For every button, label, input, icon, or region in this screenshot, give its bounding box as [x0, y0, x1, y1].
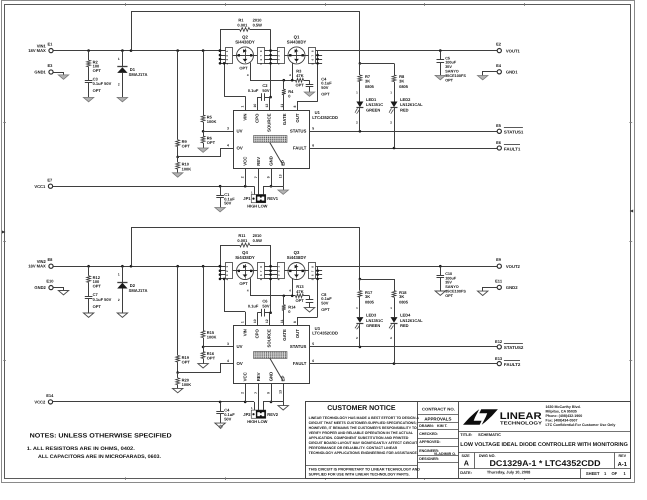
- svg-text:E11: E11: [495, 278, 503, 283]
- svg-text:Milpitas, CA 95035: Milpitas, CA 95035: [546, 410, 577, 414]
- ground at E3: [54, 73, 64, 75]
- svg-text:OPT: OPT: [93, 284, 102, 289]
- svg-text:REV1: REV1: [267, 196, 278, 201]
- wire middle source node bus: [270, 245, 272, 313]
- wire VIN bus left of Q4: [220, 245, 222, 279]
- svg-text:35V: 35V: [445, 65, 452, 69]
- svg-text:PERFORMANCE OR RELIABILITY. C: PERFORMANCE OR RELIABILITY. CONTACT LINE…: [309, 446, 398, 450]
- ground under C8: [304, 308, 314, 312]
- size and dwg no row: [458, 452, 630, 454]
- svg-text:47K: 47K: [296, 289, 303, 294]
- svg-text:6: 6: [312, 144, 314, 148]
- svg-text:OV: OV: [237, 361, 243, 366]
- wire LED1 cathode: [359, 108, 361, 132]
- svg-text:OPT: OPT: [296, 83, 305, 88]
- svg-text:OF: OF: [612, 471, 618, 476]
- terminal E3 GND1: [49, 70, 53, 74]
- svg-text:10: 10: [253, 104, 257, 108]
- svg-text:VIN: VIN: [243, 114, 248, 121]
- wire REV pin stub: [258, 168, 260, 194]
- wire JP pin1: [254, 402, 256, 410]
- svg-text:VIN: VIN: [243, 329, 248, 336]
- svg-text:DC1329A-1 * LTC4352CDD: DC1329A-1 * LTC4352CDD: [490, 458, 601, 468]
- svg-text:APPROVED:: APPROVED:: [419, 440, 440, 444]
- svg-text:GATE: GATE: [282, 113, 287, 125]
- svg-text:OPT: OPT: [182, 359, 191, 364]
- svg-text:LOW: LOW: [258, 204, 268, 209]
- svg-text:GREEN: GREEN: [366, 323, 380, 328]
- svg-text:DATE:: DATE:: [460, 470, 472, 475]
- wire VIN1 rail: [53, 50, 220, 52]
- resistor R11 0.001 0.5W sense: [220, 245, 240, 247]
- transistor Q4 Si4438DY: [237, 263, 254, 280]
- svg-text:Si4438DY: Si4438DY: [235, 255, 255, 260]
- svg-text:11: 11: [280, 104, 284, 108]
- terminal E6 FAULT1: [497, 146, 501, 150]
- svg-text:UV: UV: [237, 128, 243, 133]
- svg-text:50V: 50V: [262, 303, 269, 308]
- resistor R1 0.001 0.5W sense: [220, 29, 240, 31]
- resistor R6 OPT: [203, 131, 205, 136]
- ground under C4: [304, 92, 314, 96]
- svg-text:VCC: VCC: [243, 157, 248, 166]
- svg-text:GND: GND: [269, 156, 274, 166]
- svg-text:E7: E7: [47, 177, 53, 182]
- svg-text:LINEAR TECHNOLOGY HAS MADE A B: LINEAR TECHNOLOGY HAS MADE A BEST EFFORT…: [309, 416, 420, 420]
- svg-text:OPT: OPT: [93, 68, 102, 73]
- svg-text:STATUS1: STATUS1: [504, 129, 524, 134]
- svg-text:Si4438DY: Si4438DY: [287, 39, 307, 44]
- resistor R15 100K: [203, 266, 205, 330]
- svg-text:E4: E4: [496, 63, 502, 68]
- wire output bus right of Q1: [317, 51, 319, 102]
- wire EP pin stub: [283, 168, 285, 186]
- svg-text:3K: 3K: [399, 294, 404, 299]
- svg-text:HIGH: HIGH: [247, 204, 257, 209]
- svg-text:10: 10: [253, 319, 257, 323]
- diode D1 SMAJ17A: [122, 51, 124, 67]
- resistor R20 100K: [177, 373, 179, 378]
- terminal E1 VIN1: [49, 49, 53, 53]
- svg-text:35V: 35V: [445, 281, 452, 285]
- ground under R20: [173, 388, 183, 392]
- terminal E8 VIN2: [49, 264, 53, 268]
- svg-text:LTC Confidential-For Customer: LTC Confidential-For Customer Use Only: [546, 423, 616, 427]
- svg-text:4: 4: [227, 359, 229, 363]
- svg-text:CIRCUIT THAT MEETS CUSTOMER-SU: CIRCUIT THAT MEETS CUSTOMER-SUPPLIED SPE…: [309, 421, 417, 425]
- wire VOUT rail: [318, 50, 498, 52]
- revision diamond mark: [219, 425, 223, 429]
- resistor R14 0: [283, 296, 285, 305]
- svg-text:DESIGNER:: DESIGNER:: [419, 457, 439, 461]
- wire output bus right of Q3: [317, 266, 319, 317]
- svg-text:UV: UV: [237, 344, 243, 349]
- terminal E13 FAULT2: [497, 362, 501, 366]
- resistor R17 3K 0805: [359, 279, 361, 291]
- svg-text:FAULT1: FAULT1: [504, 146, 521, 151]
- terminal E9 VOUT2: [497, 264, 501, 268]
- svg-text:18V MAX: 18V MAX: [28, 264, 46, 269]
- svg-text:50V: 50V: [321, 85, 328, 90]
- svg-text:VCC1: VCC1: [34, 184, 46, 189]
- svg-text:GND2: GND2: [506, 285, 518, 290]
- svg-text:3K: 3K: [365, 294, 370, 299]
- resistor R7 3K 0805: [359, 63, 361, 75]
- transistor Q2 Si4438DY: [237, 47, 254, 64]
- wire STATUS line: [309, 346, 497, 348]
- svg-text:A-1: A-1: [618, 462, 628, 468]
- svg-text:0.001: 0.001: [237, 238, 248, 243]
- svg-text:SMAJ17A: SMAJ17A: [129, 288, 148, 293]
- wire STATUS line: [309, 131, 497, 133]
- svg-text:CIRCUIT BOARD LAYOUT MAY SIGNI: CIRCUIT BOARD LAYOUT MAY SIGNIFICANTLY A…: [309, 441, 418, 445]
- svg-text:OPT: OPT: [445, 294, 453, 298]
- svg-text:12: 12: [265, 104, 269, 108]
- capacitor C7 0.1uF 50V OPT: [88, 282, 90, 296]
- wire OUT to pin 8: [298, 102, 318, 111]
- wire LED supply rail: [131, 227, 133, 266]
- svg-text:CHECKED:: CHECKED:: [419, 432, 438, 436]
- svg-text:Si4438DY: Si4438DY: [287, 255, 307, 260]
- svg-text:C10: C10: [445, 272, 452, 276]
- svg-text:5: 5: [312, 127, 314, 131]
- wire VIN2 rail: [53, 266, 220, 268]
- svg-text:8: 8: [293, 106, 297, 108]
- svg-text:TECHNOLOGY: TECHNOLOGY: [500, 421, 542, 426]
- wire EP pin stub: [283, 384, 285, 402]
- wire LED supply rail: [131, 12, 133, 51]
- svg-text:0805: 0805: [365, 84, 375, 89]
- wire VOUT rail: [318, 266, 498, 268]
- svg-text:0.1uF 50V: 0.1uF 50V: [93, 81, 112, 86]
- node OV divider: [176, 371, 179, 374]
- node UV divider: [202, 346, 205, 349]
- svg-text:Thursday, July 10, 2008: Thursday, July 10, 2008: [487, 469, 531, 474]
- svg-text:1: 1: [241, 106, 245, 108]
- svg-text:OPT: OPT: [207, 356, 216, 361]
- wire LED4 cathode: [394, 323, 396, 363]
- capacitor C4 0.1uF 50V OPT: [309, 80, 311, 84]
- svg-text:KIM T.: KIM T.: [437, 424, 448, 428]
- svg-text:LED2: LED2: [400, 97, 411, 102]
- wire VCC pin stub: [245, 384, 247, 402]
- resistor R5 100K: [203, 51, 205, 115]
- wire FAULT line: [309, 363, 497, 365]
- svg-text:OPT: OPT: [93, 304, 102, 309]
- wire source pin stub: [269, 314, 271, 326]
- resistor R16 OPT: [203, 347, 205, 352]
- svg-text:FAULT: FAULT: [293, 361, 307, 366]
- svg-text:Fax: (408)434-0507: Fax: (408)434-0507: [546, 418, 578, 422]
- terminal E4 GND1: [497, 70, 501, 74]
- svg-text:LN1261CAL: LN1261CAL: [400, 102, 423, 107]
- svg-text:GATE: GATE: [282, 329, 287, 341]
- resistor R13 47K OPT: [296, 294, 304, 298]
- svg-text:E6: E6: [496, 140, 502, 145]
- svg-text:STATUS: STATUS: [290, 128, 307, 133]
- svg-text:LN1351C: LN1351C: [366, 102, 383, 107]
- svg-text:OPT: OPT: [445, 78, 453, 82]
- svg-text:VCC: VCC: [243, 372, 248, 381]
- svg-text:SOURCE: SOURCE: [267, 113, 272, 132]
- svg-text:8: 8: [293, 321, 297, 323]
- svg-text:0805: 0805: [365, 300, 375, 305]
- ground under EP: [278, 190, 288, 194]
- svg-text:50V: 50V: [321, 300, 328, 305]
- svg-text:100K: 100K: [182, 166, 192, 171]
- svg-text:18V MAX: 18V MAX: [28, 48, 46, 53]
- svg-text:2: 2: [241, 176, 245, 178]
- svg-text:GND1: GND1: [506, 70, 518, 75]
- capacitor C6 0.1uF 50V: [257, 313, 259, 326]
- wire VIN to pin 1: [224, 63, 226, 96]
- ground under C1: [215, 208, 225, 212]
- wire VIN bus left of Q2: [220, 29, 222, 63]
- svg-text:OV: OV: [237, 145, 243, 150]
- resistor R12 100 OPT: [88, 266, 90, 276]
- ground under C4: [215, 423, 225, 427]
- svg-text:2: 2: [118, 298, 120, 302]
- transistor Q3 Si4438DY: [288, 263, 305, 280]
- svg-text:HIGH: HIGH: [247, 419, 257, 424]
- wire FAULT line: [309, 148, 497, 150]
- svg-text:LN1351C: LN1351C: [366, 318, 383, 323]
- wire UV: [203, 131, 233, 133]
- svg-text:0.001: 0.001: [237, 23, 248, 28]
- svg-text:100uF: 100uF: [445, 276, 457, 280]
- ground under C10: [435, 291, 445, 295]
- svg-text:1. ALL RESISTORS ARE IN OHMS,: 1. ALL RESISTORS ARE IN OHMS, 0402.: [27, 446, 136, 452]
- svg-text:E13: E13: [495, 356, 503, 361]
- wire VCC rail: [53, 401, 254, 403]
- svg-text:0.1uF: 0.1uF: [248, 88, 259, 93]
- svg-text:RED: RED: [400, 108, 409, 113]
- wire GND pin stub: [271, 384, 273, 402]
- ground under C7: [83, 313, 93, 317]
- svg-text:SOURCE: SOURCE: [267, 329, 272, 348]
- svg-text:OUT: OUT: [295, 113, 300, 122]
- svg-text:GND: GND: [269, 372, 274, 382]
- wire LED2 cathode: [394, 108, 396, 148]
- svg-text:0.5W: 0.5W: [253, 238, 263, 243]
- transistor Q1 Si4438DY: [288, 47, 305, 64]
- svg-text:VCC2: VCC2: [34, 399, 46, 404]
- svg-text:35CE100FS: 35CE100FS: [445, 290, 466, 294]
- svg-text:3: 3: [227, 127, 229, 131]
- svg-text:REV2: REV2: [267, 412, 278, 417]
- ground at E10: [54, 288, 64, 291]
- svg-text:11: 11: [280, 319, 284, 323]
- ground under D2: [117, 313, 127, 317]
- capacitor C1 0.1uF 50V: [220, 186, 222, 195]
- svg-text:Si4438DY: Si4438DY: [235, 39, 255, 44]
- wire REV pin stub: [258, 384, 260, 410]
- svg-text:3: 3: [227, 342, 229, 346]
- svg-text:E1: E1: [47, 42, 53, 47]
- svg-text:0805: 0805: [399, 300, 409, 305]
- capacitor C10 100uF 35V SANYO OPT: [440, 266, 442, 275]
- wire source pin stub: [269, 98, 271, 110]
- svg-text:SUPPLIED FOR USE WITH LINEAR T: SUPPLIED FOR USE WITH LINEAR TECHNOLOGY …: [309, 472, 410, 476]
- svg-text:OPT: OPT: [239, 66, 248, 71]
- svg-text:CPO: CPO: [255, 328, 260, 338]
- capacitor C3 0.1uF 50V OPT: [88, 67, 90, 81]
- svg-text:RED: RED: [400, 323, 409, 328]
- svg-text:OPT: OPT: [93, 88, 102, 93]
- svg-text:LTC4352CDD: LTC4352CDD: [312, 115, 338, 120]
- ground under EP: [278, 406, 288, 410]
- svg-text:0805: 0805: [399, 84, 409, 89]
- svg-text:E8: E8: [47, 257, 53, 262]
- resistor R9 OPT: [177, 51, 179, 140]
- svg-text:SCHEMATIC: SCHEMATIC: [478, 432, 501, 437]
- svg-text:APPROVALS: APPROVALS: [424, 417, 451, 422]
- capacitor C5 100uF 35V SANYO OPT: [440, 51, 442, 60]
- svg-text:12: 12: [265, 319, 269, 323]
- svg-text:LED4: LED4: [400, 312, 411, 317]
- terminal E14 VCC2: [48, 400, 52, 404]
- resistor R2 100 OPT: [88, 51, 90, 61]
- resistor R8 3K 0805: [394, 63, 396, 75]
- wire OV: [178, 364, 234, 373]
- svg-text:SMAJ17A: SMAJ17A: [129, 72, 148, 77]
- terminal E2 VOUT1: [497, 49, 501, 53]
- svg-text:A: A: [464, 459, 469, 468]
- wire LED3 cathode: [359, 323, 361, 347]
- svg-text:35CE100FS: 35CE100FS: [445, 74, 466, 78]
- svg-text:50V: 50V: [262, 88, 269, 93]
- capacitor C2 0.1uF 50V: [257, 97, 259, 110]
- wire JP pin1: [254, 186, 256, 194]
- svg-text:VERIFY PROPER AND RELIABLE OPE: VERIFY PROPER AND RELIABLE OPERATION IN …: [309, 431, 414, 435]
- svg-text:HOWEVER, IT REMAINS THE CUSTOM: HOWEVER, IT REMAINS THE CUSTOMER'S RESPO…: [309, 426, 417, 430]
- svg-text:E3: E3: [47, 63, 53, 68]
- wire VCC pin stub: [245, 168, 247, 186]
- svg-text:CONTRACT NO.: CONTRACT NO.: [422, 406, 455, 411]
- wire OUT to pin 8: [298, 318, 318, 326]
- svg-text:6: 6: [312, 359, 314, 363]
- svg-text:TITLE:: TITLE:: [460, 432, 472, 437]
- ground under C5: [435, 75, 445, 79]
- svg-text:LOW VOLTAGE IDEAL DIODE CONTRO: LOW VOLTAGE IDEAL DIODE CONTROLLER WITH …: [460, 442, 628, 448]
- svg-text:0.1uF 50V: 0.1uF 50V: [93, 297, 112, 302]
- svg-text:1: 1: [118, 57, 120, 61]
- wire VCC rail: [53, 186, 254, 188]
- svg-text:1: 1: [118, 272, 120, 276]
- svg-text:DRAWN:: DRAWN:: [419, 424, 434, 428]
- svg-text:2: 2: [118, 82, 120, 86]
- svg-text:REV: REV: [619, 454, 627, 458]
- svg-text:OPT: OPT: [321, 92, 330, 97]
- svg-text:4: 4: [227, 144, 229, 148]
- svg-text:13: 13: [279, 390, 283, 394]
- svg-text:STATUS: STATUS: [290, 344, 307, 349]
- wire middle source node bus: [270, 29, 272, 97]
- svg-text:E5: E5: [496, 123, 502, 128]
- svg-text:E14: E14: [46, 393, 54, 398]
- resistor R18 3K 0805: [394, 279, 396, 291]
- diode D2 SMAJ17A: [122, 266, 124, 282]
- svg-text:STATUS2: STATUS2: [504, 345, 524, 350]
- svg-text:3K: 3K: [399, 79, 404, 84]
- zone tick marks: [125, 3, 127, 6]
- svg-text:OPT: OPT: [207, 140, 216, 145]
- ground under R6: [198, 148, 208, 152]
- op-amp IC U1 LTC4352CDD: [234, 111, 310, 169]
- jumper JP1 REV1: [251, 195, 265, 203]
- svg-text:5: 5: [312, 342, 314, 346]
- svg-text:SIZE: SIZE: [462, 454, 471, 458]
- svg-text:OPT: OPT: [296, 298, 305, 303]
- svg-text:50V: 50V: [224, 201, 231, 206]
- svg-text:E12: E12: [495, 339, 503, 344]
- svg-text:100uF: 100uF: [445, 61, 457, 65]
- ground under R16: [198, 364, 208, 368]
- ground under C3: [83, 97, 93, 101]
- terminal E5 STATUS1: [497, 129, 501, 133]
- svg-text:E10: E10: [46, 279, 54, 284]
- svg-text:100K: 100K: [207, 335, 217, 340]
- svg-text:13: 13: [279, 174, 283, 178]
- svg-text:REV: REV: [256, 157, 261, 166]
- ground at E4: [483, 72, 498, 76]
- op-amp IC U3 LTC4352CDD: [234, 326, 310, 384]
- svg-text:50V: 50V: [224, 416, 231, 421]
- terminal E10 GND2: [49, 286, 53, 290]
- svg-text:FAULT: FAULT: [293, 145, 307, 150]
- resistor R3 47K OPT: [296, 78, 304, 82]
- svg-text:1630 McCarthy Blvd.: 1630 McCarthy Blvd.: [546, 405, 581, 409]
- svg-text:E2: E2: [496, 42, 502, 47]
- svg-text:Phone: (408)432-1900: Phone: (408)432-1900: [546, 414, 583, 418]
- ground at E11: [483, 288, 498, 292]
- svg-text:SANYO: SANYO: [445, 70, 459, 74]
- svg-text:ALL CAPACITORS ARE IN MICROFAR: ALL CAPACITORS ARE IN MICROFARADS, 0603.: [38, 454, 162, 460]
- node UV divider: [202, 130, 205, 133]
- wire gate bus: [250, 80, 296, 82]
- svg-text:100K: 100K: [207, 119, 217, 124]
- capacitor C8 0.1uF 50V OPT: [309, 296, 311, 300]
- resistor R4 0: [283, 80, 285, 89]
- resistor R19 OPT: [177, 266, 179, 355]
- wire gate bus: [250, 295, 296, 297]
- svg-text:JP1: JP1: [243, 196, 251, 201]
- node OV divider: [176, 156, 179, 159]
- svg-text:CPO: CPO: [255, 113, 260, 123]
- svg-text:LN1261CAL: LN1261CAL: [400, 318, 423, 323]
- svg-text:2: 2: [241, 392, 245, 394]
- svg-text:SHEET: SHEET: [586, 471, 600, 476]
- svg-text:LTC4352CDD: LTC4352CDD: [312, 330, 338, 335]
- svg-text:THIS CIRCUIT IS PROPRIETARY TO: THIS CIRCUIT IS PROPRIETARY TO LINEAR TE…: [309, 467, 421, 471]
- Linear Technology logo: [479, 409, 498, 425]
- svg-text:GREEN: GREEN: [366, 108, 380, 113]
- title row: [458, 431, 630, 433]
- svg-text:VOUT2: VOUT2: [506, 264, 521, 269]
- svg-text:REV: REV: [256, 372, 261, 381]
- resistor R10 100K: [177, 157, 179, 162]
- capacitor C4 0.1uF 50V: [220, 402, 222, 411]
- svg-text:TECHNOLOGY APPLICATIONS ENGINE: TECHNOLOGY APPLICATIONS ENGINEERING FOR …: [309, 451, 418, 455]
- terminal E12 STATUS2: [497, 345, 501, 349]
- ground under D1: [117, 97, 127, 101]
- svg-text:9: 9: [266, 176, 270, 178]
- svg-text:OPT: OPT: [182, 144, 191, 149]
- svg-text:0.5W: 0.5W: [253, 23, 263, 28]
- wire UV: [203, 346, 233, 348]
- svg-text:JP2: JP2: [243, 412, 251, 417]
- svg-text:47K: 47K: [296, 73, 303, 78]
